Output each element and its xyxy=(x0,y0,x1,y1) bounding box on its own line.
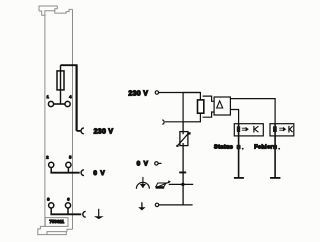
svg-text:230 V: 230 V xyxy=(94,129,114,136)
wire to Fehler LED xyxy=(230,99,275,124)
ground symbol module xyxy=(98,209,100,217)
svg-text:750611: 750611 xyxy=(49,219,64,224)
LED box Fehler xyxy=(270,124,294,136)
wire fuse top to supply xyxy=(61,64,77,66)
module bottom right profile xyxy=(67,229,73,231)
node N hook xyxy=(162,120,164,125)
wire row3 bus xyxy=(50,213,81,215)
part number box xyxy=(45,218,68,227)
wire row1 bus xyxy=(54,103,65,105)
svg-text:4: 4 xyxy=(69,94,72,99)
diode K Fehler xyxy=(288,126,290,133)
arrow Fehler xyxy=(279,128,283,130)
svg-text:230 V: 230 V xyxy=(128,90,148,97)
functional earth symbol xyxy=(142,177,144,188)
wire connector bottom xyxy=(203,112,215,117)
node L input circle xyxy=(155,91,158,94)
wire terminal5 stem xyxy=(67,168,69,173)
svg-text:0 V: 0 V xyxy=(137,161,149,168)
svg-text:5: 5 xyxy=(69,154,72,159)
measuring box A xyxy=(214,97,230,115)
module top profile xyxy=(39,6,57,15)
end bar Fehler wire xyxy=(270,177,280,179)
wire through Fehler LED xyxy=(274,124,276,178)
terminal 5 xyxy=(66,162,71,167)
wire earth rail xyxy=(159,204,193,206)
node 0V circle xyxy=(155,162,158,165)
end bar Status wire xyxy=(234,177,244,179)
fuse F2 xyxy=(198,100,204,113)
wire to Status LED xyxy=(230,110,238,124)
module bottom profile xyxy=(38,226,67,234)
LED lamp mark Status xyxy=(237,145,241,150)
wire 230V stub xyxy=(77,130,81,132)
svg-text:0 V: 0 V xyxy=(93,170,105,177)
wire terminal6 stem xyxy=(67,208,69,214)
varistor RV1 xyxy=(182,122,184,185)
terminal 6 xyxy=(65,203,70,208)
module top right profile xyxy=(55,9,73,13)
svg-text:6: 6 xyxy=(67,196,70,201)
arrow Status xyxy=(242,128,246,130)
diode K Status xyxy=(253,126,255,133)
delta symbol xyxy=(217,101,223,108)
disconnect point symbol xyxy=(156,187,165,189)
wire 0V stub xyxy=(158,162,161,164)
wire fuse center xyxy=(60,65,62,104)
contact arc 230V xyxy=(81,128,84,134)
junction dot xyxy=(181,183,184,186)
tick bar xyxy=(179,172,186,174)
terminal 3 xyxy=(49,203,54,208)
wire N line xyxy=(165,121,183,123)
LED chip Status xyxy=(237,126,240,132)
terminal 1 xyxy=(48,101,53,106)
wire to earth rail xyxy=(182,184,184,205)
contact arc 0V xyxy=(81,170,84,176)
terminal 2 xyxy=(49,162,54,167)
wire connector top xyxy=(203,96,215,101)
LED box Status xyxy=(234,124,263,136)
wire through Status LED xyxy=(238,124,240,178)
svg-text:Status: Status xyxy=(214,144,233,150)
svg-text:2: 2 xyxy=(46,154,49,159)
fuse F1 xyxy=(57,71,64,90)
wire L line xyxy=(159,92,201,94)
LED lamp mark Fehler xyxy=(273,145,277,150)
svg-text:Fehler: Fehler xyxy=(254,144,273,150)
wire 0V rail xyxy=(169,183,194,185)
node earth circle xyxy=(155,203,158,206)
wire 230V supply drop xyxy=(75,64,77,130)
svg-text:3: 3 xyxy=(47,196,50,201)
terminal 4 xyxy=(65,101,70,106)
contact arc earth xyxy=(83,211,86,217)
wire row2 bus xyxy=(50,172,79,174)
module right edge xyxy=(72,9,74,229)
svg-text:1: 1 xyxy=(47,94,50,99)
power unit box U1 xyxy=(183,93,200,122)
wire terminal3 stem xyxy=(50,208,52,214)
module left edge xyxy=(44,15,46,226)
earth arrow symbol xyxy=(141,202,143,207)
wire terminal2 stem xyxy=(50,168,52,173)
LED chip Fehler xyxy=(273,126,277,132)
